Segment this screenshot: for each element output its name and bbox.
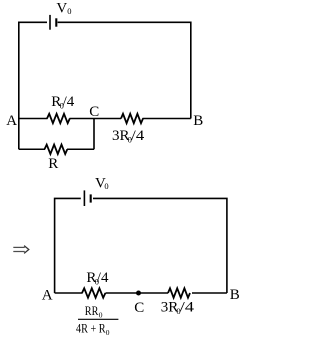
svg-text:RR: RR	[85, 303, 99, 318]
svg-text:4R + R: 4R + R	[76, 321, 106, 336]
wire parallel branch from A corner to resistor R	[19, 148, 45, 150]
node C dot (bottom circuit)	[136, 291, 141, 296]
svg-text:A: A	[6, 113, 17, 129]
resistor R0/4 (top circuit) zigzag	[47, 114, 70, 123]
svg-text:/4: /4	[131, 128, 145, 144]
svg-text:B: B	[230, 287, 240, 303]
resistor 3R0/4 (top circuit) zigzag	[121, 114, 143, 123]
battery V0 (bottom circuit) long plate	[83, 190, 85, 206]
svg-text:V: V	[56, 0, 67, 16]
wire A to resistor R0/4	[19, 118, 48, 120]
wire top-right segment (battery across and down to B)	[58, 22, 191, 118]
wire C to resistor 3R0/4	[94, 118, 121, 120]
svg-text:0: 0	[104, 181, 108, 191]
battery V0 (top circuit) long plate	[49, 15, 51, 30]
wire 3R0/4 to B (bottom)	[192, 292, 227, 294]
wire C down to parallel branch	[93, 119, 95, 150]
svg-text:0: 0	[106, 328, 110, 337]
wire A to resistor R0/4 (bottom)	[55, 292, 83, 294]
wire R0/4 to node C (bottom)	[106, 292, 169, 294]
svg-text:0: 0	[67, 6, 71, 16]
wire R0/4 to C	[70, 118, 95, 120]
svg-text:/4: /4	[97, 270, 109, 286]
svg-text:/4: /4	[180, 300, 195, 316]
svg-text:B: B	[193, 113, 203, 129]
battery V0 (bottom circuit) short plate	[90, 194, 92, 202]
wire 3R0/4 to B corner	[143, 118, 191, 120]
resistor R (top circuit) zigzag	[45, 145, 68, 154]
wire bottom circuit top-left (A corner up and across to battery)	[55, 198, 81, 293]
fraction bar	[78, 318, 118, 320]
svg-text:/4: /4	[63, 94, 75, 110]
svg-text:C: C	[89, 104, 99, 120]
wire top-left segment (A corner up and across to battery)	[19, 22, 47, 149]
resistor 3R0/4 (bottom circuit) zigzag	[168, 288, 190, 297]
svg-text:0: 0	[99, 311, 103, 320]
battery V0 (top circuit) short plate	[55, 18, 57, 26]
svg-text:A: A	[42, 288, 53, 304]
svg-text:R: R	[48, 156, 58, 172]
wire resistor R to C branch corner	[67, 148, 94, 150]
resistor R0/4 (bottom circuit) zigzag	[82, 288, 105, 297]
implies arrow	[13, 246, 28, 254]
svg-text:C: C	[134, 300, 144, 316]
wire bottom circuit top-right (battery across and down to B)	[93, 198, 227, 293]
